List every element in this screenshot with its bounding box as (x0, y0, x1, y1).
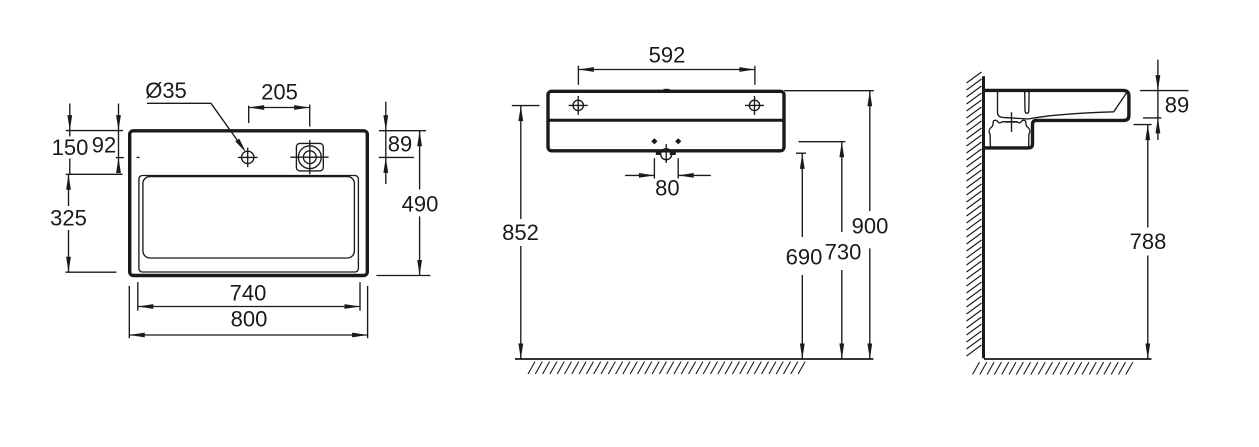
svg-text:788: 788 (1130, 229, 1167, 254)
drain hole circle (661, 149, 672, 160)
drain boss (656, 151, 676, 155)
center mark on basin top edge (664, 89, 670, 91)
wall hatching (967, 72, 982, 356)
svg-text:490: 490 (402, 192, 439, 217)
front apron line (550, 119, 783, 122)
dimension 490 (overall depth) (402, 131, 439, 276)
svg-text:325: 325 (50, 206, 87, 231)
svg-text:800: 800 (231, 307, 268, 332)
dimension 89 (apron height, side) (1156, 60, 1190, 140)
basin outline (top view) (130, 131, 368, 276)
svg-text:Ø35: Ø35 (145, 78, 187, 103)
dimension 900 (top height) (784, 91, 888, 359)
svg-text:740: 740 (230, 281, 267, 306)
centerline dash left of faucet hole (137, 156, 140, 158)
basin bottom edge (top view) (143, 177, 355, 258)
dimension 788 (underside height, side) (1130, 125, 1167, 359)
drain axis centerline (side view) (1005, 112, 1018, 132)
dimension 852 (hole axis height) (502, 106, 539, 359)
faucet hole circle (Ø35) (238, 148, 258, 168)
dimension 150 (top to basin edge) (52, 104, 89, 175)
wall line (982, 76, 985, 358)
tap fixture square symbol (290, 140, 328, 174)
svg-text:92: 92 (92, 133, 116, 158)
svg-text:205: 205 (261, 80, 298, 105)
dimension 205 (hole spacing) (249, 80, 310, 127)
svg-text:150: 150 (52, 135, 89, 160)
floor line (front view) (515, 358, 873, 360)
dimension 89 (top to hole axis, right) (383, 102, 412, 184)
svg-text:80: 80 (655, 176, 679, 201)
dimension 690 (underside height) (786, 153, 823, 359)
floor line (side view) (984, 358, 1152, 360)
dimension 592 (mounting hole spacing) (578, 43, 755, 85)
mounting hole left (569, 96, 588, 115)
basin outline (front view) (548, 91, 784, 151)
drain fixing lugs (651, 138, 681, 144)
svg-text:900: 900 (852, 214, 889, 239)
svg-text:89: 89 (388, 132, 412, 157)
svg-text:730: 730 (825, 240, 862, 265)
label Ø35 with leader line (145, 78, 246, 153)
bottom extension lines (129, 282, 367, 338)
svg-text:592: 592 (649, 43, 686, 68)
right view extension lines for 89 (1140, 91, 1189, 118)
dimension 740 (basin width) (138, 281, 360, 309)
svg-text:852: 852 (502, 220, 539, 245)
drain trap section (side view) (989, 120, 1030, 147)
drain centerline (665, 144, 667, 163)
basin inner bowl and shelf taper (side view) (998, 92, 1127, 119)
dimension 92 (top to hole axis) (92, 104, 121, 174)
mounting hole right (745, 96, 764, 115)
left extension lines (65, 131, 123, 273)
dimension 325 (basin inner depth) (50, 174, 87, 272)
dimension 80 (drain) (625, 158, 711, 200)
basin profile outline (side view) (985, 90, 1129, 147)
floor hatching (side view) (973, 362, 1133, 374)
dimension 800 (overall width) (129, 307, 367, 338)
floor hatching (front view) (528, 362, 805, 374)
svg-text:690: 690 (786, 245, 823, 270)
svg-text:89: 89 (1165, 93, 1189, 118)
dimension 730 (overflow height) (799, 142, 862, 359)
basin rim inner edge (top view) (139, 176, 359, 273)
right extension lines (376, 131, 430, 276)
overflow slot (side view) (1025, 92, 1029, 113)
